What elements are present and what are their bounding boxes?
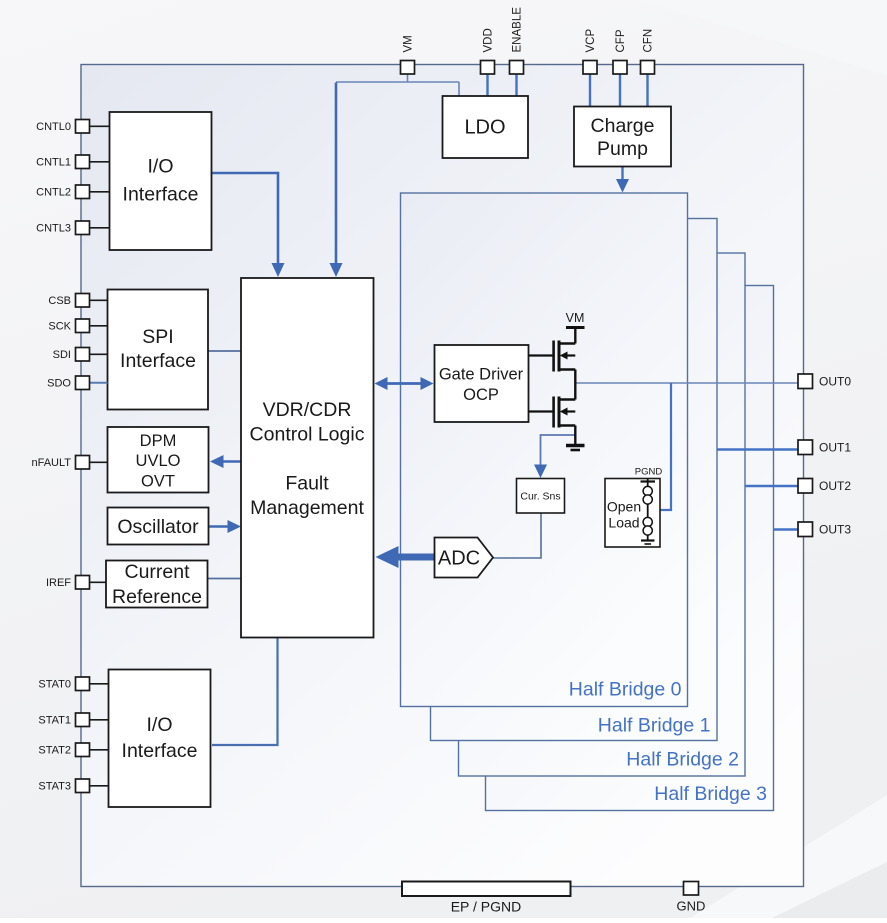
pin SCK — [48, 319, 107, 333]
wire OUT3 net — [774, 528, 799, 530]
svg-text:CNTL1: CNTL1 — [36, 157, 71, 169]
svg-text:Fault: Fault — [285, 473, 329, 495]
block Gate Driver OCP — [435, 345, 529, 422]
pin OUT0 — [798, 374, 851, 389]
wire ADC to control logic (thick arrow) — [399, 554, 435, 561]
block Open Load — [605, 479, 660, 548]
wire OUT1 net — [717, 448, 798, 450]
svg-text:Current: Current — [124, 561, 190, 583]
wire current sense to ADC — [493, 513, 541, 558]
pin CNTL1 — [36, 155, 109, 169]
wire gate lead high-side — [529, 354, 554, 356]
wire oscillator to control logic (arrow) — [209, 525, 230, 527]
pin CFP — [613, 29, 627, 74]
svg-text:OVT: OVT — [141, 473, 175, 491]
block Current Reference — [106, 561, 208, 609]
block I/O Interface (top) — [110, 112, 212, 250]
block SPI Interface — [108, 290, 209, 410]
wire open load tap — [660, 383, 671, 510]
svg-text:ADC: ADC — [438, 548, 480, 570]
svg-text:SDO: SDO — [47, 378, 71, 390]
svg-text:VDD: VDD — [483, 28, 495, 52]
wire VCP to charge pump — [589, 74, 591, 107]
wire OUT2 net — [745, 485, 798, 487]
pin SDO — [47, 376, 107, 390]
svg-text:VM: VM — [403, 35, 415, 52]
pin nFAULT — [31, 456, 107, 470]
svg-text:Interface: Interface — [123, 184, 199, 206]
svg-text:STAT1: STAT1 — [38, 715, 71, 727]
svg-text:CSB: CSB — [48, 295, 71, 307]
chip boundary — [81, 65, 804, 887]
svg-text:Half Bridge 3: Half Bridge 3 — [654, 783, 767, 805]
open load current source chain — [641, 479, 656, 545]
block LDO — [443, 96, 529, 158]
svg-text:STAT2: STAT2 — [38, 745, 71, 757]
svg-text:VCP: VCP — [585, 29, 597, 53]
svg-text:Reference: Reference — [112, 586, 202, 608]
svg-text:nFAULT: nFAULT — [31, 457, 71, 469]
half bridge 2 box — [459, 253, 746, 776]
svg-text:UVLO: UVLO — [136, 452, 181, 470]
wire I/O interface to control logic (arrow) — [212, 173, 279, 264]
svg-text:Half Bridge 0: Half Bridge 0 — [569, 679, 682, 701]
svg-text:Open: Open — [607, 499, 641, 515]
pin SDI — [53, 348, 108, 362]
svg-text:SPI: SPI — [142, 326, 173, 348]
transistor high-side NMOS — [554, 328, 585, 400]
svg-text:Pump: Pump — [597, 138, 648, 160]
wire control logic to gate driver (double arrow) — [385, 382, 423, 385]
pin STAT2 — [38, 743, 108, 757]
svg-text:Cur. Sns: Cur. Sns — [520, 491, 560, 503]
svg-text:IREF: IREF — [46, 577, 71, 589]
pin OUT3 — [798, 522, 851, 537]
half bridge 3 box — [486, 286, 774, 811]
svg-text:ENABLE: ENABLE — [512, 7, 524, 53]
svg-text:Management: Management — [250, 497, 364, 519]
ground (mosfet source) — [566, 446, 585, 451]
wire control logic to I/O interface bottom — [212, 638, 278, 746]
block I/O Interface (bottom) — [109, 670, 211, 808]
wire VM pin drop — [407, 74, 409, 82]
pin CNTL0 — [36, 120, 109, 134]
pin CNTL2 — [36, 185, 109, 199]
wire OUT0 net — [576, 382, 799, 384]
pin OUT1 — [798, 440, 851, 455]
wire gate lead low-side — [529, 410, 554, 412]
svg-text:VDR/CDR: VDR/CDR — [263, 399, 352, 421]
svg-text:LDO: LDO — [464, 117, 505, 139]
wire CFN to charge pump — [646, 74, 648, 107]
block Charge Pump — [574, 107, 671, 167]
pin STAT1 — [38, 713, 108, 727]
svg-text:SDI: SDI — [53, 349, 71, 361]
svg-text:I/O: I/O — [147, 156, 173, 178]
half bridge 0 box — [401, 193, 688, 707]
svg-text:VM: VM — [566, 311, 585, 325]
pin IREF — [46, 576, 106, 590]
pin STAT0 — [38, 677, 108, 691]
svg-text:Half Bridge 2: Half Bridge 2 — [626, 749, 739, 771]
block VDR/CDR Control Logic Fault Management — [241, 278, 374, 638]
pin VCP — [583, 29, 597, 74]
transistor low-side NMOS — [554, 397, 576, 445]
svg-text:Gate Driver: Gate Driver — [439, 366, 524, 384]
svg-text:STAT0: STAT0 — [38, 679, 71, 691]
wire VDD to LDO — [486, 74, 488, 96]
svg-text:Interface: Interface — [120, 350, 196, 372]
svg-text:OUT0: OUT0 — [819, 375, 851, 389]
svg-text:OUT1: OUT1 — [819, 441, 851, 455]
svg-text:EP / PGND: EP / PGND — [451, 899, 522, 915]
svg-text:CNTL3: CNTL3 — [36, 223, 71, 235]
svg-text:OCP: OCP — [463, 386, 499, 404]
half bridge 1 box — [431, 219, 718, 741]
svg-text:PGND: PGND — [635, 467, 663, 478]
svg-text:I/O: I/O — [146, 714, 172, 736]
block Oscillator — [108, 508, 209, 545]
svg-text:SCK: SCK — [48, 321, 71, 333]
wire source sense tap — [541, 435, 576, 466]
wire control logic to DPM (arrow) — [222, 460, 241, 462]
svg-text:Interface: Interface — [122, 740, 198, 762]
pin CSB — [48, 294, 107, 308]
svg-text:Charge: Charge — [591, 115, 655, 137]
svg-text:Half Bridge 1: Half Bridge 1 — [598, 715, 711, 737]
pin OUT2 — [798, 479, 851, 494]
svg-text:CNTL0: CNTL0 — [36, 121, 71, 133]
pin VM — [401, 35, 415, 74]
svg-text:CNTL2: CNTL2 — [36, 187, 71, 199]
wire ENABLE to LDO — [515, 74, 517, 96]
svg-text:GND: GND — [677, 899, 706, 914]
block Cur. Sns — [517, 479, 565, 514]
wire charge pump to half bridge (arrow) — [621, 167, 623, 181]
wire VM to control logic (arrow) — [335, 83, 338, 265]
wire VM horizontal bus — [336, 81, 459, 83]
wire SPI to control logic — [208, 350, 241, 352]
svg-text:CFP: CFP — [615, 29, 627, 52]
block DPM UVLO OVT — [108, 427, 209, 493]
wire VM branch to LDO — [458, 82, 460, 96]
svg-text:CFN: CFN — [643, 29, 655, 53]
svg-text:OUT2: OUT2 — [819, 479, 851, 493]
svg-text:STAT3: STAT3 — [38, 781, 71, 793]
svg-text:Oscillator: Oscillator — [117, 516, 199, 538]
pin GND — [677, 882, 706, 914]
pin STAT3 — [38, 779, 108, 793]
block ADC — [435, 538, 494, 578]
wire current reference to control logic — [208, 578, 242, 580]
pin EP / PGND — [402, 882, 571, 915]
svg-text:OUT3: OUT3 — [819, 523, 851, 537]
pin VDD — [481, 28, 495, 74]
pin CFN — [641, 29, 655, 74]
svg-text:Load: Load — [608, 515, 639, 531]
pin CNTL3 — [36, 221, 109, 235]
svg-text:DPM: DPM — [140, 432, 177, 450]
pin ENABLE — [510, 7, 524, 74]
svg-text:Control Logic: Control Logic — [250, 424, 365, 446]
wire CFP to charge pump — [619, 74, 621, 107]
